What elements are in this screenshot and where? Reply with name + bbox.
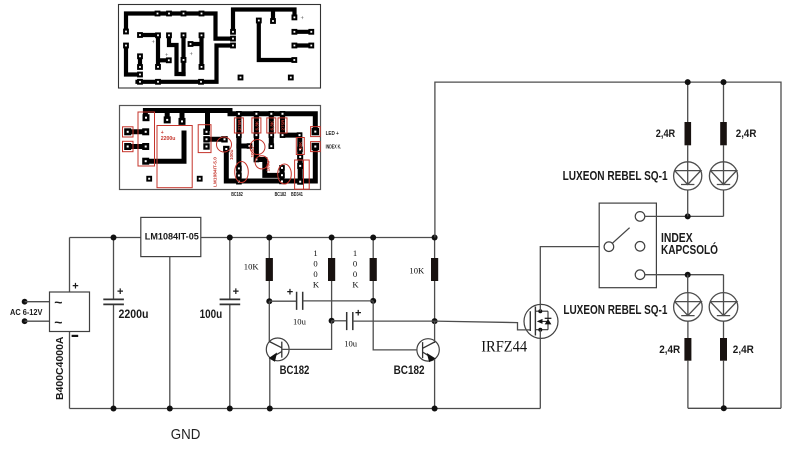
capacitor C4 10u bbox=[332, 320, 347, 322]
svg-text:BD341: BD341 bbox=[291, 192, 303, 198]
svg-text:0: 0 bbox=[313, 269, 317, 279]
LED D1 top bbox=[674, 162, 702, 190]
svg-text:10u: 10u bbox=[344, 338, 358, 348]
switch box INDEX KAPCSOLO bbox=[599, 203, 656, 288]
node 100u bottom bbox=[227, 406, 233, 412]
svg-text:BC182: BC182 bbox=[231, 192, 243, 198]
trace index pair link bbox=[294, 43, 311, 47]
trace bottom bus bbox=[138, 46, 234, 82]
svg-text:+: + bbox=[117, 286, 123, 298]
wire GND rail bbox=[70, 408, 541, 410]
trace2 100u drop bbox=[226, 147, 315, 182]
svg-text:GND: GND bbox=[171, 426, 201, 443]
trace2 top bus left bbox=[145, 111, 230, 129]
svg-text:BC182: BC182 bbox=[280, 365, 310, 377]
trace led pair link bbox=[294, 30, 311, 34]
resistor R8 2.4R bottom bbox=[723, 321, 725, 408]
svg-text:LUXEON REBEL SQ-1: LUXEON REBEL SQ-1 bbox=[563, 303, 667, 317]
svg-text:+: + bbox=[355, 307, 361, 319]
resistor R4 10K bbox=[434, 238, 436, 259]
svg-text:B400C4000A: B400C4000A bbox=[54, 336, 66, 400]
red 10k outline bbox=[296, 138, 304, 155]
wire bottom right rail bbox=[688, 407, 781, 409]
wire mosfet drain up to switch bbox=[540, 247, 604, 312]
svg-text:10u: 10u bbox=[293, 316, 307, 326]
svg-text:AC 6-12V: AC 6-12V bbox=[10, 308, 43, 317]
svg-text:2200u: 2200u bbox=[119, 307, 149, 321]
trace output net bbox=[259, 21, 295, 61]
switch lever bbox=[612, 228, 629, 244]
red bd341 outline bbox=[295, 160, 310, 189]
trace column d bbox=[181, 35, 185, 74]
red 100u cap circle bbox=[217, 137, 232, 152]
red transistor outlines bbox=[235, 162, 249, 183]
trace2 top bus right bbox=[230, 111, 315, 129]
LED D3 bottom bbox=[674, 293, 703, 322]
svg-text:LM1084IT-05: LM1084IT-05 bbox=[145, 232, 200, 243]
pcb board outline bbox=[119, 5, 321, 89]
svg-text:100u: 100u bbox=[200, 307, 223, 321]
svg-text:+: + bbox=[233, 286, 239, 298]
trace column e bbox=[191, 35, 202, 67]
svg-text:+: + bbox=[287, 286, 293, 298]
svg-text:LED +: LED + bbox=[326, 131, 340, 137]
trace2 10k link bbox=[283, 133, 300, 138]
trace2 mid links bbox=[239, 135, 300, 182]
wire switch top contact to top LEDs bbox=[645, 215, 724, 217]
red 2200u outline bbox=[157, 126, 192, 188]
trace jumper link bbox=[138, 56, 142, 67]
trace2 t1 column bbox=[236, 135, 241, 182]
node AC terminal 2 bbox=[22, 318, 28, 324]
red led pad square bbox=[311, 127, 321, 137]
wire AC input top bbox=[25, 301, 50, 303]
node A T1 collector bbox=[266, 298, 272, 304]
red bridge outline bbox=[138, 112, 155, 166]
trace2 resistor columns bbox=[239, 114, 283, 135]
node 2200u top bbox=[111, 235, 117, 241]
trace2 regulator out bbox=[207, 137, 225, 142]
svg-text:2,4R: 2,4R bbox=[733, 344, 754, 356]
svg-text:6,8K: 6,8K bbox=[269, 120, 274, 130]
svg-text:2200u: 2200u bbox=[161, 136, 176, 142]
svg-text:2,4R: 2,4R bbox=[656, 128, 675, 140]
resistor R5 2.4R top bbox=[687, 82, 689, 162]
resistor R3 100K bbox=[372, 238, 374, 259]
svg-text:INDEX K.: INDEX K. bbox=[326, 144, 342, 150]
wire bridge minus drop bbox=[69, 332, 71, 409]
node D T2 collector gate net bbox=[432, 318, 438, 324]
pads bbox=[123, 11, 314, 85]
trace2 bridge ac links bbox=[131, 132, 146, 147]
trace middle jog bbox=[169, 35, 184, 74]
node C T2 base net bbox=[370, 298, 376, 304]
node 100u top bbox=[227, 235, 233, 241]
svg-text:10K: 10K bbox=[244, 261, 260, 271]
red index pad square bbox=[311, 142, 321, 152]
svg-text:K: K bbox=[313, 280, 320, 290]
svg-text:6,8K: 6,8K bbox=[254, 120, 259, 130]
LED D2 top bbox=[709, 162, 737, 190]
trace top bus bbox=[126, 14, 233, 39]
resistor R6 2.4R top bbox=[723, 82, 725, 162]
svg-text:2,4R: 2,4R bbox=[736, 128, 757, 140]
svg-text:BC182: BC182 bbox=[394, 365, 425, 377]
svg-text:10K: 10K bbox=[409, 265, 425, 275]
svg-text:100u: 100u bbox=[266, 161, 271, 172]
node B T1 base net bbox=[329, 318, 335, 324]
svg-text:KAPCSOLÓ: KAPCSOLÓ bbox=[661, 242, 718, 257]
svg-text:1: 1 bbox=[313, 248, 317, 258]
resistor R1 10K bbox=[268, 238, 270, 259]
capacitor C3 10u bbox=[269, 300, 296, 302]
capacitor C2 100u bbox=[229, 238, 231, 299]
red cap circles bbox=[250, 140, 265, 155]
wire top led risers bbox=[687, 190, 689, 216]
svg-text:1: 1 bbox=[353, 248, 357, 258]
svg-text:0: 0 bbox=[353, 259, 357, 269]
wire switch bottom contact to bottom LEDs bbox=[645, 274, 724, 276]
svg-text:275R: 275R bbox=[237, 119, 242, 131]
svg-text:IRFZ44: IRFZ44 bbox=[481, 339, 527, 356]
svg-text:LM1084IT-5.0: LM1084IT-5.0 bbox=[213, 157, 219, 187]
svg-text:275R: 275R bbox=[281, 119, 286, 131]
svg-text:100u: 100u bbox=[229, 149, 234, 160]
wire LM1084 gnd pin bbox=[169, 257, 171, 409]
red regulator outline bbox=[198, 125, 211, 153]
svg-text:0: 0 bbox=[313, 259, 317, 269]
node 2200u bottom bbox=[111, 406, 117, 412]
red resistor outlines bbox=[234, 118, 243, 133]
svg-text:K: K bbox=[352, 280, 359, 290]
transistor U2 IRFZ44 mosfet bbox=[524, 304, 558, 338]
wire bridge plus riser bbox=[69, 238, 71, 293]
svg-text:~: ~ bbox=[54, 294, 62, 310]
LED D4 bottom bbox=[709, 293, 738, 322]
rectifier B400C4000A bbox=[50, 292, 90, 332]
capacitor C1 2200u bbox=[113, 238, 115, 299]
svg-text:2,4R: 2,4R bbox=[659, 344, 680, 356]
node AC terminal 1 bbox=[22, 299, 28, 305]
svg-text:LUXEON REBEL SQ-1: LUXEON REBEL SQ-1 bbox=[563, 169, 668, 183]
pads bbox=[124, 111, 319, 185]
svg-text:~: ~ bbox=[54, 314, 62, 330]
trace right top net bbox=[233, 10, 295, 32]
transistor Q1 BC182 bbox=[266, 338, 289, 361]
svg-text:0: 0 bbox=[353, 269, 357, 279]
node LM gnd bbox=[167, 406, 173, 412]
resistor R2 100K bbox=[331, 238, 333, 259]
wire AC input bottom bbox=[25, 320, 50, 322]
wire V+ rail bbox=[70, 237, 435, 239]
transistor Q2 BC182 bbox=[417, 339, 439, 361]
pcb2 board outline bbox=[120, 106, 321, 190]
red ac pad squares bbox=[123, 127, 134, 137]
svg-text:BC182: BC182 bbox=[275, 192, 287, 198]
svg-text:+: + bbox=[72, 280, 78, 292]
wire mosfet source down bbox=[539, 330, 541, 409]
svg-text:100u*: 100u* bbox=[250, 145, 255, 157]
regulator U1 LM1084IT-05 bbox=[141, 217, 201, 256]
trace input column bbox=[140, 35, 169, 67]
trace left elbow bbox=[126, 46, 140, 75]
red overlay bbox=[123, 112, 321, 189]
wire top supply rail bbox=[435, 82, 781, 408]
svg-text:10K: 10K bbox=[298, 141, 303, 150]
trace2 bridge minus L bbox=[146, 133, 184, 161]
resistor R7 2.4R bottom bbox=[687, 321, 689, 408]
